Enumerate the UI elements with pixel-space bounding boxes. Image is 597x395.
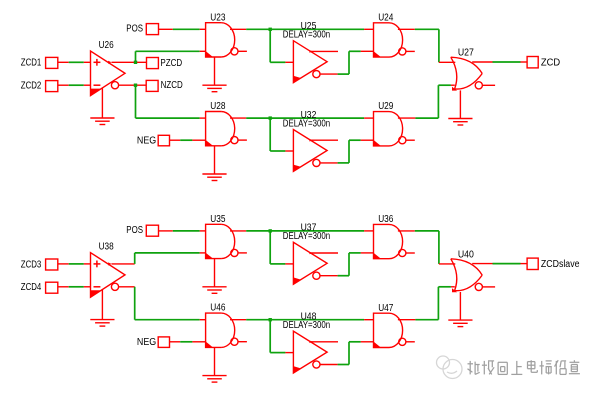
ground of U40 (459, 292, 461, 320)
wire node down to delay1 input (269, 29, 271, 62)
node gate1 output (269, 229, 272, 232)
gate U24 (374, 23, 415, 57)
svg-text:ZCD1: ZCD1 (21, 58, 42, 69)
ground of U23 (214, 57, 216, 85)
svg-text:ZCD3: ZCD3 (21, 259, 42, 270)
svg-text:NEG: NEG (137, 337, 156, 348)
svg-text:U40: U40 (458, 249, 474, 260)
svg-text:ZCD: ZCD (541, 57, 560, 68)
ground of U38 (101, 289, 103, 320)
ground of U26 (101, 88, 103, 119)
gate U28 (206, 112, 247, 146)
node gate1 output (269, 28, 272, 31)
wire op-amp output (112, 61, 147, 63)
delay U37 (293, 242, 338, 284)
wire ZCD2 to op-amp (58, 84, 69, 86)
wire U46 output (230, 319, 246, 321)
wire node down to delay2 input (269, 320, 271, 353)
gate U46 (206, 313, 247, 347)
wire op-amp output (112, 263, 135, 265)
wire to gate1 lower input (134, 253, 136, 264)
svg-text:DELAY=300n: DELAY=300n (283, 320, 330, 331)
port ZCD2 (46, 81, 58, 92)
port ZCD (527, 57, 538, 68)
delay U32 (293, 130, 338, 172)
port NEG (158, 337, 169, 348)
wire U32 inverted output to U29 (338, 162, 349, 164)
watermark logo (437, 356, 463, 379)
wire U40 output to port ZCDslave (472, 263, 492, 265)
svg-text:U28: U28 (210, 101, 226, 112)
op-amp U26 (91, 51, 126, 96)
op-amp U38 (91, 253, 126, 298)
svg-text:DELAY=300n: DELAY=300n (283, 30, 330, 41)
svg-text:U23: U23 (210, 12, 226, 23)
ground of U46 (214, 347, 216, 375)
wire op-amp inverted output (119, 286, 135, 288)
wire POS to gate1 (159, 28, 173, 30)
node gate3 output (269, 116, 272, 119)
svg-text:U38: U38 (99, 242, 114, 253)
svg-text:ZCD2: ZCD2 (21, 81, 42, 92)
svg-text:ZCD4: ZCD4 (21, 282, 42, 293)
gate U36 (374, 224, 415, 258)
wire node down to delay2 input (269, 118, 271, 151)
port ZCDslave (527, 258, 538, 269)
wire U36 output to or-gate (398, 230, 415, 232)
node gate3 output (269, 318, 272, 321)
wire POS to gate1 (159, 230, 173, 232)
svg-text:NZCD: NZCD (161, 80, 183, 91)
svg-text:POS: POS (126, 225, 143, 236)
or-gate U27 (451, 57, 495, 90)
gate U23 (206, 23, 247, 57)
svg-text:U46: U46 (210, 303, 226, 314)
ground of U35 (214, 259, 216, 287)
wire U24 output to or-gate (398, 28, 415, 30)
wire op-amp inverted output (119, 84, 147, 86)
svg-text:U24: U24 (378, 12, 394, 23)
svg-text:ZCDslave: ZCDslave (541, 259, 580, 270)
port POS (146, 225, 158, 236)
port NZCD (146, 80, 158, 91)
watermark text (468, 361, 480, 375)
svg-text:DELAY=300n: DELAY=300n (283, 118, 330, 129)
node PZCD (134, 61, 137, 64)
svg-text:NEG: NEG (137, 135, 156, 146)
ground of U28 (214, 146, 216, 174)
port PZCD (147, 58, 159, 69)
wire to gate1 lower input (135, 51, 137, 62)
wire ZCD3 to op-amp (58, 263, 69, 265)
ground of U27 (459, 90, 461, 118)
wire ZCD4 to op-amp (58, 286, 69, 288)
wire U28 output (230, 117, 246, 119)
svg-text:U26: U26 (99, 40, 114, 51)
port ZCD4 (46, 282, 58, 293)
port ZCD1 (46, 57, 58, 68)
port NEG (158, 135, 169, 146)
svg-text:U27: U27 (458, 48, 474, 59)
svg-text:U36: U36 (378, 214, 394, 225)
gate U29 (374, 112, 415, 146)
delay U25 (293, 41, 338, 83)
svg-text:U47: U47 (378, 303, 394, 314)
wire U23 output (230, 28, 246, 30)
gate U35 (206, 224, 247, 258)
wire NEG to gate2 (170, 341, 181, 343)
wire U48 inverted output to U47 (338, 364, 349, 366)
wire U25 inverted output to U24 (338, 73, 349, 75)
svg-text:POS: POS (126, 23, 143, 34)
gate U47 (374, 313, 415, 347)
wire U37 inverted output to U36 (338, 275, 349, 277)
wire NEG to gate2 (170, 139, 181, 141)
or-gate U40 (451, 259, 495, 292)
svg-text:PZCD: PZCD (160, 58, 182, 69)
node NZCD (134, 84, 137, 87)
wire ZCD1 to op-amp (58, 61, 69, 63)
wire U47 output to or-gate (398, 319, 416, 321)
port POS (146, 24, 158, 35)
port ZCD3 (46, 259, 58, 270)
svg-text:U35: U35 (210, 214, 226, 225)
svg-text:U29: U29 (378, 101, 394, 112)
wire to gate2 upper input (135, 85, 137, 118)
svg-text:DELAY=300n: DELAY=300n (283, 231, 330, 242)
wire U27 output to port ZCD (472, 61, 492, 63)
wire to gate2 upper input (134, 287, 136, 320)
delay U48 (293, 331, 338, 373)
wire U29 output to or-gate (398, 117, 416, 119)
wire U35 output (230, 230, 246, 232)
wire node down to delay1 input (269, 231, 271, 264)
